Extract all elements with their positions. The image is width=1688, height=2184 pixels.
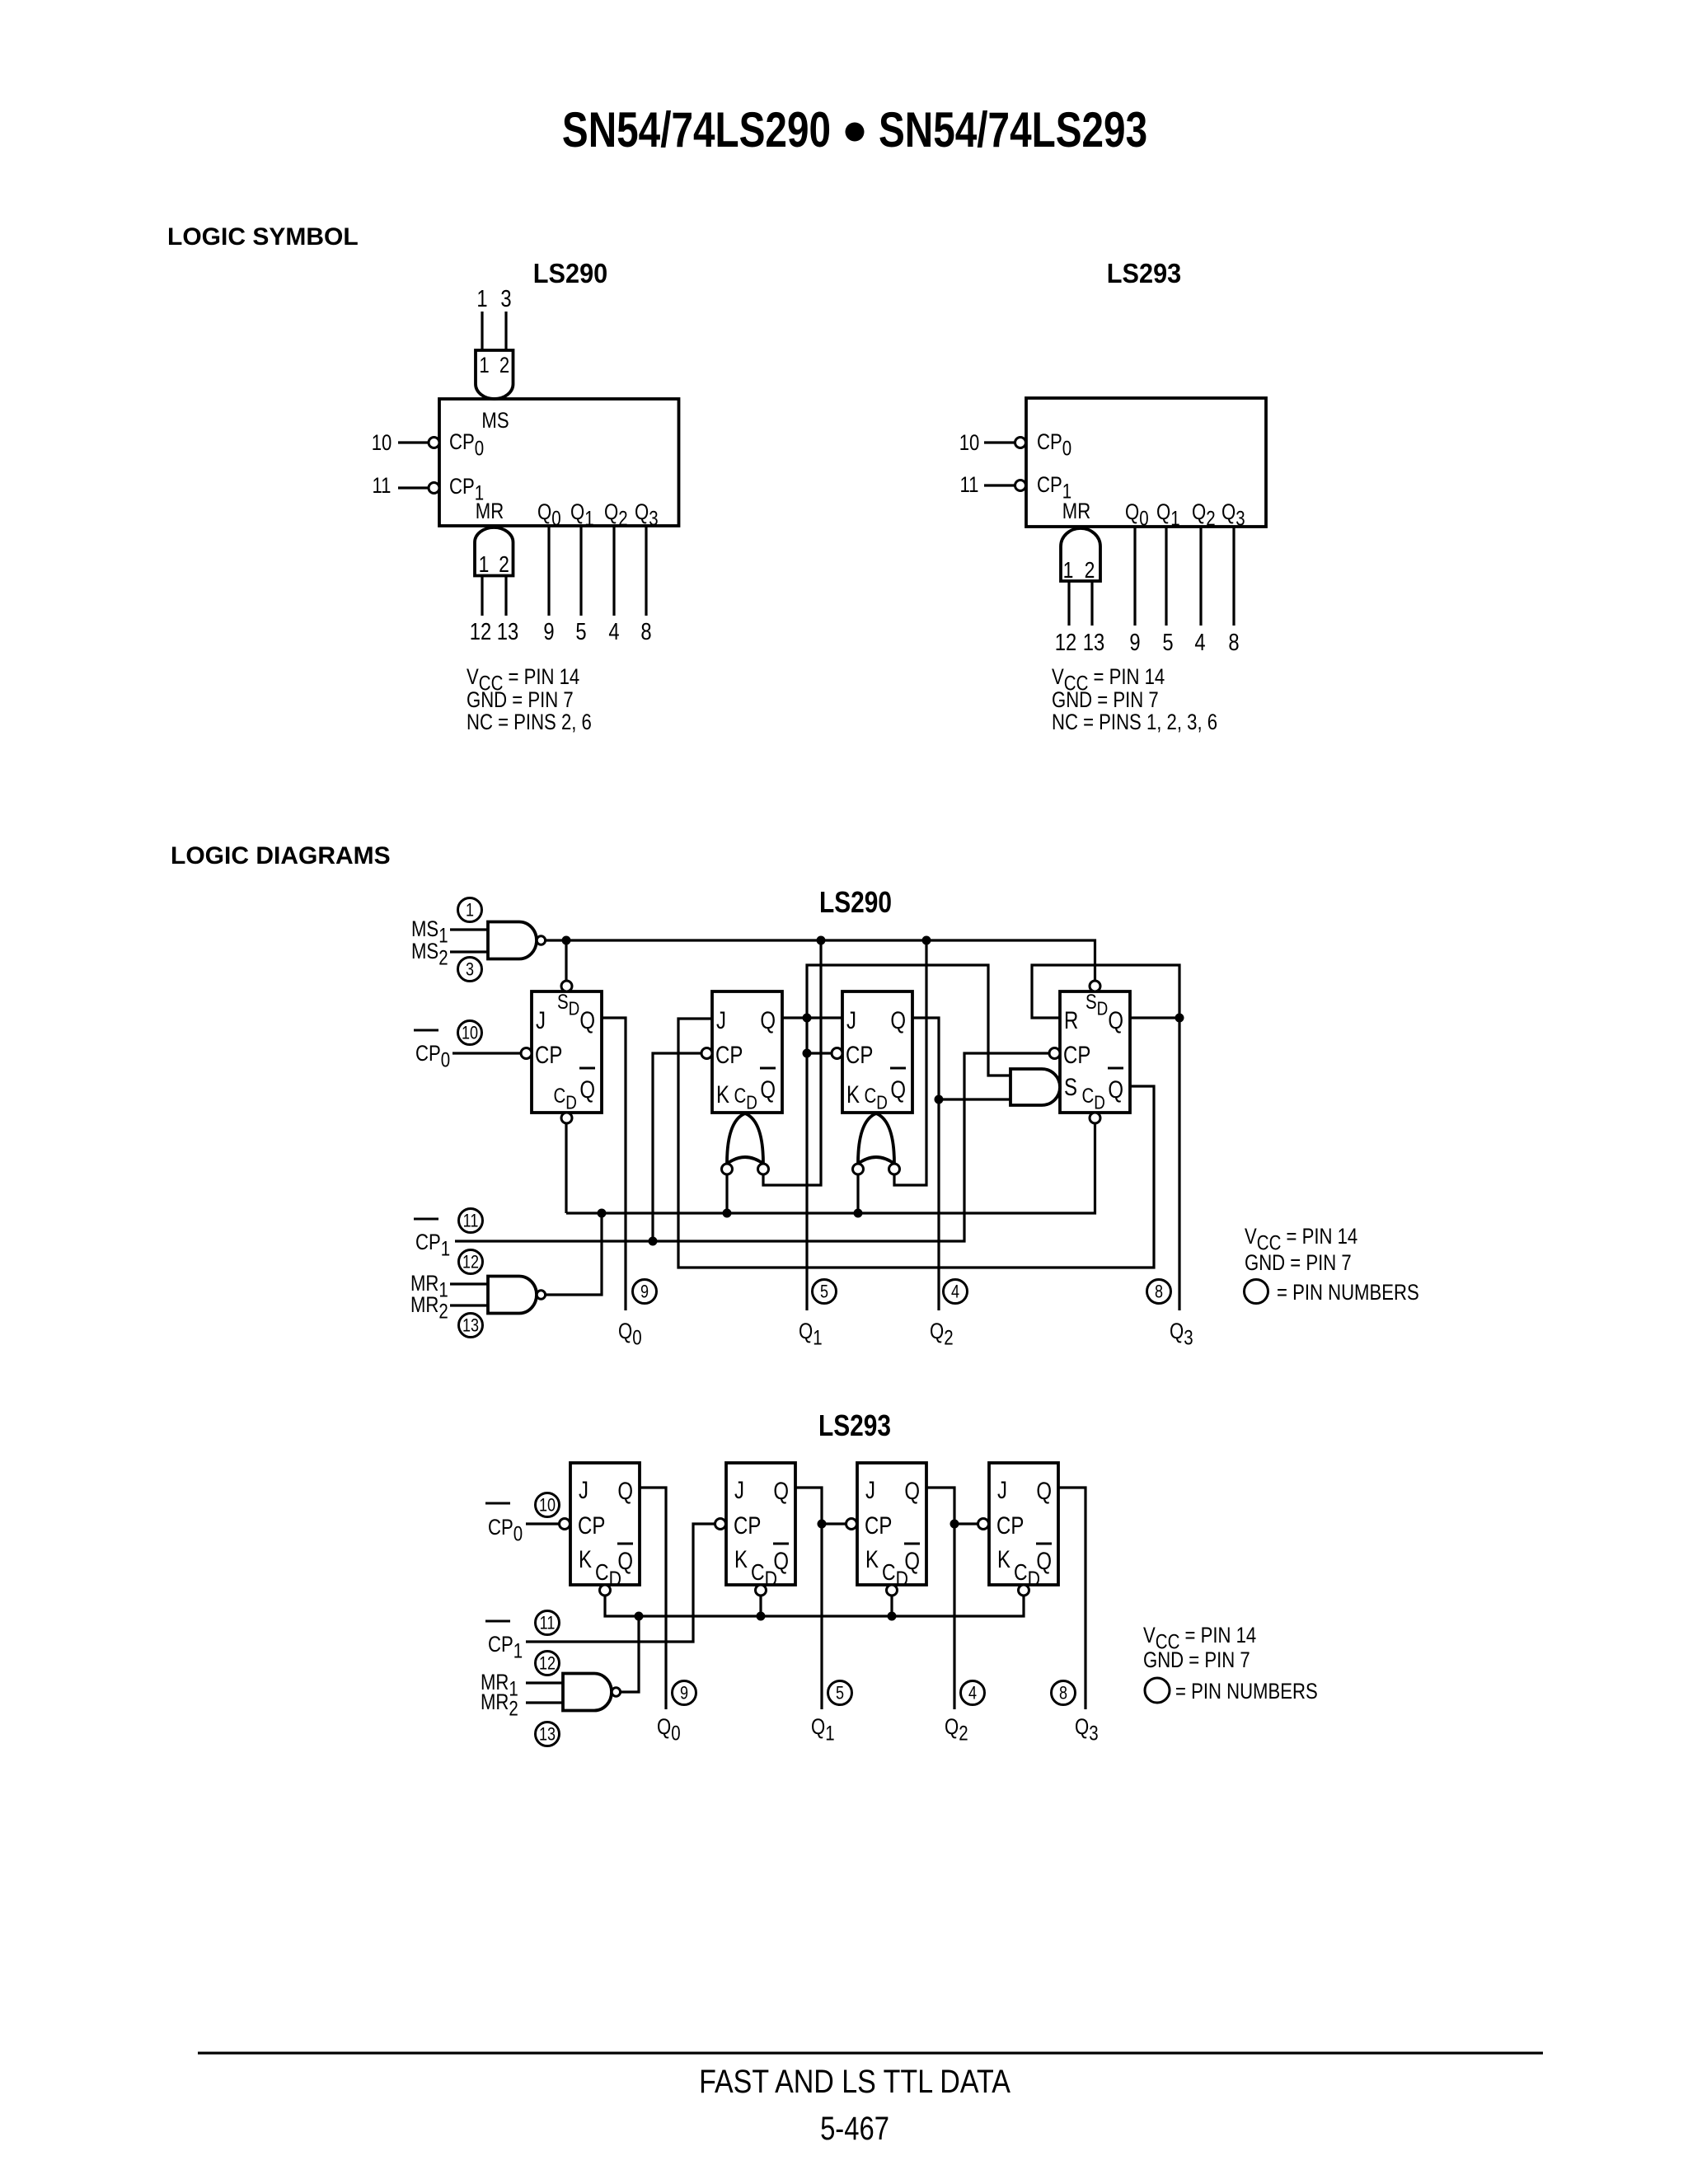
pin 5 label [575,618,586,645]
wire to FF2 OR-gate right bubble [763,940,821,1185]
svg-text:K: K [734,1544,748,1572]
junction FF3 CP tap [818,1520,827,1529]
pin circle 10 [536,1493,560,1517]
wire FF2 Q to Q1 terminal [795,1488,822,1709]
junction FF1 SD tap [562,936,571,945]
wire CP1 line to FF2 CP [526,1524,715,1642]
flip-flop box [989,1463,1058,1585]
label Qbar [760,1075,776,1103]
junction FF2 CP tap [649,1237,658,1246]
LS293 diagram title [818,1409,891,1442]
AND gate into FF4 S input [1010,1069,1060,1105]
label Qbar [890,1075,906,1103]
terminal label Q1 [811,1715,835,1745]
pin circle 4 [944,1280,968,1304]
svg-text:2: 2 [1085,558,1095,583]
label CP [535,1040,562,1068]
AND gate MS inputs (top) [476,350,513,399]
label Q0 [537,500,561,530]
pin circle 9 [633,1280,657,1304]
note VCC pin 14 [1245,1225,1357,1254]
svg-text:5-467: 5-467 [820,2110,889,2147]
label J [734,1475,744,1503]
wire pin10 to CP0 [398,441,429,443]
label MR2 [481,1690,518,1720]
svg-text:Q: Q [1108,1005,1123,1033]
pin circle 12 [459,1250,483,1274]
wire pin3 stub [504,312,507,351]
svg-text:LS293: LS293 [818,1409,891,1442]
pin circle 3 [458,958,482,982]
wire FF1 Q to Q0 terminal [640,1488,666,1709]
pin circle 5 [828,1681,852,1705]
label MR1 [481,1671,518,1700]
svg-text:1: 1 [476,285,487,312]
svg-text:13: 13 [1083,629,1104,656]
svg-text:11: 11 [540,1614,556,1633]
svg-text:Q: Q [760,1005,776,1033]
LS290 symbol pin 3 label [500,285,511,312]
svg-text:LOGIC SYMBOL: LOGIC SYMBOL [167,223,359,251]
wire Q2 output [1199,527,1202,626]
OR gate under FF3 [858,1113,894,1164]
label Q3 [635,500,659,530]
label K [579,1544,592,1572]
note GND pin 7 [467,688,574,713]
label Q [1108,1005,1123,1033]
svg-text:LOGIC DIAGRAMS: LOGIC DIAGRAMS [171,842,391,869]
svg-text:Q: Q [890,1005,906,1033]
label K [846,1080,860,1108]
svg-text:K: K [997,1544,1010,1572]
svg-text:CP: CP [996,1511,1024,1539]
note pin numbers legend text [1277,1281,1419,1305]
wire to FF1 SD [565,940,567,981]
bubble CP1 [1015,480,1026,491]
gate input label 1 [479,552,490,578]
pin circle 1 [458,898,482,922]
flip-flop box [842,991,912,1113]
svg-text:2: 2 [499,354,509,378]
wire MR2 input [526,1701,563,1704]
pin circle 11 [459,1209,483,1233]
pin circle 10 [458,1021,482,1045]
label Q [890,1005,906,1033]
LS290 symbol pin 1 label [476,285,487,312]
svg-text:5: 5 [575,618,586,645]
flip-flop box [712,991,782,1113]
svg-text:4: 4 [968,1684,977,1704]
NAND gate MS (U3) [488,922,537,959]
note NC pins [1052,710,1217,735]
pin circle 8 [1052,1681,1076,1705]
label J [579,1475,588,1503]
wire MR2 input [450,1304,488,1306]
svg-text:3: 3 [500,285,511,312]
gate input label 2 [1085,558,1095,583]
wire to FF3 OR-gate right bubble [894,940,926,1185]
terminal label Q0 [657,1715,681,1745]
wire pin13 stub [504,576,507,616]
svg-text:= PIN NUMBERS: = PIN NUMBERS [1277,1281,1419,1305]
svg-text:Q: Q [1108,1075,1123,1103]
svg-text:4: 4 [951,1282,959,1302]
gate input label 1 [479,354,489,378]
wire Q0 output [1133,527,1136,626]
footer rule [198,2052,1543,2055]
bubble CP [978,1519,989,1530]
label CP [578,1511,605,1539]
label Q2 [604,500,628,530]
label Q3 [1221,500,1245,530]
wire FF2 Q to FF3 J [783,1016,842,1019]
pin 4 label [1194,629,1205,656]
label Qbar [1036,1546,1052,1574]
pin circle 5 [813,1280,837,1304]
pin circle 8 [1147,1280,1171,1304]
svg-text:K: K [716,1080,729,1108]
svg-text:11: 11 [463,1212,479,1231]
svg-text:CP: CP [1063,1040,1090,1068]
NAND gate MR (U5) [563,1674,612,1711]
svg-text:CP: CP [734,1511,761,1539]
AND gate MR inputs (bottom) [475,527,513,576]
svg-text:FAST AND LS TTL DATA: FAST AND LS TTL DATA [699,2062,1010,2099]
junction FF2 OR left bubble [723,1209,732,1218]
svg-text:11: 11 [373,474,392,499]
svg-text:LS290: LS290 [533,258,607,288]
svg-text:12: 12 [539,1654,556,1674]
svg-text:CP: CP [578,1511,605,1539]
svg-text:9: 9 [1129,629,1140,656]
pin circle 12 [536,1652,560,1675]
footer text FAST AND LS TTL DATA [699,2062,1010,2099]
bubble CD [561,1113,572,1123]
junction FF4 Q feedback [1175,1014,1184,1023]
junction FF3 CD [888,1612,897,1621]
LS290 symbol body U1 [439,399,679,526]
label CP [996,1511,1024,1539]
svg-text:CP: CP [865,1511,892,1539]
bubble CD [887,1585,898,1596]
svg-text:4: 4 [608,618,619,645]
svg-text:J: J [716,1005,726,1033]
label K [865,1544,879,1572]
label J [536,1005,546,1033]
flip-flop box [1060,991,1130,1113]
label K [997,1544,1010,1572]
svg-text:K: K [579,1544,592,1572]
wire MR line [566,1124,1095,1214]
label CP [846,1040,873,1068]
svg-text:9: 9 [640,1282,649,1302]
label J [716,1005,726,1033]
footer page number [820,2110,889,2147]
svg-text:LS293: LS293 [1107,258,1181,288]
label CP0 with overline [488,1516,523,1545]
wire pin13 stub [1090,581,1093,626]
svg-text:1: 1 [466,901,474,921]
note VCC pin 14 [1143,1624,1256,1653]
flip-flop box [532,991,602,1113]
heading LOGIC SYMBOL [167,223,359,251]
label CD [882,1560,908,1591]
flip-flop box [857,1463,926,1585]
wire MR1 input [526,1681,563,1684]
label CP [865,1511,892,1539]
wire MS2 input [450,950,488,953]
svg-text:Q: Q [904,1476,920,1504]
svg-text:S: S [1064,1072,1077,1100]
label MR [1062,499,1090,524]
label CP1 [1037,473,1071,503]
label Q [1036,1476,1052,1504]
wire MR NAND output to MR line [546,1213,603,1295]
label Q [579,1005,595,1033]
wire FF4 Q feedback to R input [1032,965,1179,1018]
wire FF4 Qbar to FF2 J [678,1019,1154,1268]
note pin numbers legend circle [1245,1280,1268,1304]
note VCC pin 14 [467,665,579,695]
pin 12 label [470,618,491,645]
bubble SD [561,981,572,991]
svg-text:10: 10 [539,1496,556,1516]
wire FF2 CD riser [759,1596,762,1617]
terminal label Q2 [945,1715,968,1745]
bubble CD [1090,1113,1100,1123]
svg-text:4: 4 [1194,629,1205,656]
label MR [476,499,504,524]
note NC pins [467,710,592,735]
label Q1 [570,500,594,530]
label Qbar [904,1546,920,1574]
svg-text:13: 13 [497,618,518,645]
label Q [904,1476,920,1504]
svg-text:5: 5 [836,1684,844,1704]
svg-text:5: 5 [820,1282,828,1302]
label MR2 [410,1293,448,1323]
wire FF3 OR left bubble to MR line [856,1174,859,1213]
svg-text:10: 10 [462,1024,478,1043]
svg-text:5: 5 [1162,629,1173,656]
wire pin11 to CP1 [398,486,429,489]
label CP0 [449,430,484,460]
svg-text:12: 12 [462,1253,479,1272]
terminal label Q3 [1075,1715,1099,1745]
label CP1 with overline [415,1230,450,1260]
wire CP1 line to FF4 CP [455,1053,1050,1241]
label CP [715,1040,743,1068]
label Qbar [1108,1075,1123,1103]
svg-text:12: 12 [470,618,491,645]
junction FF2 CD [757,1612,766,1621]
svg-text:J: J [579,1475,588,1503]
svg-text:12: 12 [1055,629,1076,656]
label S [1064,1072,1077,1100]
pin circle 13 [459,1314,483,1338]
svg-text:= PIN NUMBERS: = PIN NUMBERS [1175,1680,1318,1704]
label Q1 [1156,500,1180,530]
svg-text:CP: CP [535,1040,562,1068]
svg-text:9: 9 [680,1684,688,1704]
svg-text:NC = PINS 1, 2, 3, 6: NC = PINS 1, 2, 3, 6 [1052,710,1217,735]
flip-flop box [570,1463,640,1585]
pin circle 13 [536,1722,560,1746]
label CD [751,1560,777,1591]
junction Q1 net at FF3 J [803,1014,812,1023]
label MS2 [411,940,448,969]
note VCC pin 14 [1052,665,1165,695]
svg-text:J: J [536,1005,546,1033]
wire MR line [605,1596,1024,1617]
svg-text:K: K [865,1544,879,1572]
label J [846,1005,856,1033]
gate input label 2 [499,354,509,378]
wire FF4 CP tap [954,1522,978,1525]
svg-text:R: R [1064,1005,1078,1033]
svg-text:13: 13 [462,1316,479,1336]
junction FF3 OR left bubble [854,1209,863,1218]
junction FF2 OR-gate tap [817,936,826,945]
wire FF1 CD to MR line [565,1124,567,1214]
wire Q2 output [612,526,615,616]
svg-text:Q: Q [890,1075,906,1103]
svg-text:SN54/74LS293: SN54/74LS293 [879,103,1147,157]
note pin numbers legend circle [1145,1678,1170,1703]
wire pin11 to CP1 [984,484,1015,486]
bubble CD [1019,1585,1029,1596]
label K [734,1544,748,1572]
label CD [595,1560,621,1591]
svg-text:J: J [865,1475,875,1503]
svg-text:J: J [734,1475,744,1503]
terminal label Q2 [930,1319,954,1349]
page title SN54/74LS293 [879,103,1147,157]
svg-text:Q: Q [617,1476,633,1504]
junction FF4 CP tap [950,1520,959,1529]
svg-text:NC = PINS 2, 6: NC = PINS 2, 6 [467,710,592,735]
svg-text:SN54/74LS290: SN54/74LS290 [562,103,831,157]
svg-text:1: 1 [479,552,490,578]
wire FF4 Q to Q3 terminal [1130,1018,1179,1310]
wire CP0 to FF1 CP [526,1522,559,1525]
terminal label Q1 [799,1319,823,1349]
svg-text:MR: MR [1062,499,1090,524]
pin circle 4 [961,1681,985,1705]
junction Q2 net at AND input [935,1095,944,1104]
wire pin12 stub [1067,581,1070,626]
LS293 symbol body U2 [1026,398,1266,527]
wire pin10 to CP0 [984,441,1015,443]
svg-text:13: 13 [539,1725,556,1745]
label CP [1063,1040,1090,1068]
NAND gate MR (U4) [488,1277,537,1314]
label MR1 [410,1272,448,1301]
label J [865,1475,875,1503]
label CP0 [1037,430,1071,460]
wire MR NAND output to MR line [621,1616,639,1692]
wire AND bottom input from Q2 net [939,1098,1010,1100]
label SD [1085,990,1108,1019]
bubble SD [1090,981,1100,991]
wire FF3 Q to Q2 terminal [926,1488,954,1709]
junction Q1 net at FF3 CP [803,1049,812,1058]
wire CP0 to FF1 CP [452,1052,521,1054]
wire FF3 CP tap [807,1052,832,1054]
label J [997,1475,1007,1503]
svg-text:K: K [846,1080,860,1108]
svg-text:J: J [846,1005,856,1033]
note pin numbers legend text [1175,1680,1318,1704]
svg-text:Q: Q [1036,1476,1052,1504]
bubble CP [846,1519,857,1530]
LS293 symbol title [1107,258,1181,288]
svg-text:MR: MR [476,499,504,524]
label CP1 with overline [488,1633,523,1662]
wire pin12 stub [481,576,483,616]
label CD [1014,1560,1040,1591]
bubble CP0 [429,438,439,448]
bubble CP0 [1015,438,1026,448]
title separator dot [846,123,865,142]
label Q0 [1125,500,1149,530]
svg-text:J: J [997,1475,1007,1503]
bubble CD [600,1585,611,1596]
wire FF2 OR left bubble to MR line [725,1174,728,1213]
svg-text:Q: Q [579,1005,595,1033]
label MS1 [411,917,448,947]
OR gate under FF2 [727,1113,763,1164]
svg-text:GND = PIN 7: GND = PIN 7 [467,688,574,713]
label Q [773,1476,789,1504]
wire FF1 Q down to Q0 terminal [602,1018,626,1310]
pin 12 label [1055,629,1076,656]
label Q [760,1005,776,1033]
label Qbar [617,1546,633,1574]
terminal label Q0 [618,1319,642,1349]
pin 13 label [497,618,518,645]
bubble CP [701,1048,712,1059]
junction MR NAND output [635,1612,644,1621]
svg-text:8: 8 [1228,629,1239,656]
note GND pin 7 [1143,1648,1250,1673]
svg-text:GND = PIN 7: GND = PIN 7 [1052,688,1159,713]
wire MS1 input [450,928,488,930]
wire Q3 output [645,526,647,616]
page title SN54/74LS290 [562,103,831,157]
heading LOGIC DIAGRAMS [171,842,391,869]
pin 4 label [608,618,619,645]
pin 9 label [1129,629,1140,656]
svg-text:1: 1 [1063,558,1074,583]
svg-text:LS290: LS290 [819,886,892,919]
pin 11 label [373,474,392,499]
label CD [734,1084,757,1113]
pin circle 9 [673,1681,696,1705]
pin 13 label [1083,629,1104,656]
label CP1 [449,475,484,504]
flip-flop box [726,1463,795,1585]
note GND pin 7 [1052,688,1159,713]
wire MR1 input [450,1282,488,1285]
LS290 symbol title [533,258,607,288]
svg-text:9: 9 [543,618,554,645]
terminal label Q3 [1170,1319,1193,1349]
label SD [557,990,579,1019]
wire FF2 CP riser [653,1053,701,1241]
label MS [481,409,509,434]
wire Q1 output [1165,527,1167,626]
